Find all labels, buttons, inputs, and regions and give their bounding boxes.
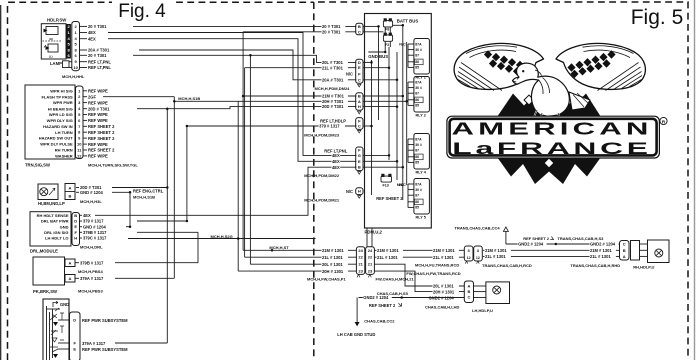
connector MCH,H,H3L bbox=[65, 184, 75, 200]
connector TRANS,CHAS,CAB,H,RHD pin strip bbox=[620, 241, 630, 261]
svg-text:LH CAB GND STUD: LH CAB GND STUD bbox=[337, 332, 375, 337]
svg-text:23: 23 bbox=[358, 269, 363, 274]
svg-text:86: 86 bbox=[415, 200, 419, 204]
svg-text:REF LT,PNL: REF LT,PNL bbox=[88, 65, 111, 70]
svg-text:87A: 87A bbox=[415, 80, 422, 84]
svg-text:RH HDLT SENSE: RH HDLT SENSE bbox=[37, 213, 69, 218]
svg-text:C: C bbox=[358, 77, 361, 82]
svg-text:379 # 1317: 379 # 1317 bbox=[319, 124, 340, 129]
svg-text:12: 12 bbox=[77, 153, 82, 158]
svg-text:E: E bbox=[73, 347, 76, 352]
HDLP,SW wire stubs and labels bbox=[80, 25, 88, 27]
trunk 20H vertical bbox=[237, 101, 239, 271]
svg-text:D: D bbox=[73, 318, 76, 323]
svg-text:REF WIPE: REF WIPE bbox=[88, 154, 108, 159]
svg-text:MCH,H,FU,TRANS,RCD: MCH,H,FU,TRANS,RCD bbox=[415, 262, 459, 267]
wire GND2 # 1204 to RHD bbox=[506, 243, 620, 245]
switch TRN,SIG,SW bbox=[25, 85, 75, 159]
svg-text:REF PWR SUBSYSTEM: REF PWR SUBSYSTEM bbox=[82, 347, 128, 352]
ground CHAS,CAB,CC2 bbox=[356, 298, 358, 323]
connector MCH,H,TURN,SIG,SW,TGL pin strip bbox=[76, 86, 84, 159]
svg-text:HAZARD SW OUT: HAZARD SW OUT bbox=[39, 136, 74, 141]
svg-text:GND: GND bbox=[60, 224, 69, 229]
logo eagle talons bbox=[533, 110, 561, 123]
connector MCH,H,PBS3 bbox=[65, 275, 75, 283]
wires 21M/21L to RHD bbox=[483, 249, 620, 251]
svg-text:30 #: 30 # bbox=[415, 86, 422, 90]
svg-text:REF WIPE: REF WIPE bbox=[88, 89, 108, 94]
Fig.4 page dashed border bbox=[8, 2, 314, 360]
svg-text:GND2 # 1204: GND2 # 1204 bbox=[518, 242, 544, 247]
connector PWR pin strip bbox=[70, 312, 81, 360]
power block internal circuit bbox=[46, 306, 48, 360]
svg-text:REF SHEET 2: REF SHEET 2 bbox=[88, 148, 115, 153]
wire 20 # T301 to PDM C bbox=[243, 31, 356, 33]
svg-text:20 # T301: 20 # T301 bbox=[322, 29, 341, 34]
svg-text:4EX: 4EX bbox=[332, 153, 340, 158]
svg-text:REF SHEET 2: REF SHEET 2 bbox=[376, 196, 403, 201]
connector MCH,H,FW,CHAS,P1 / FW,CHAS,H,MCH,21 bbox=[356, 247, 364, 275]
svg-text:22: 22 bbox=[368, 255, 373, 260]
svg-text:B: B bbox=[358, 24, 361, 29]
svg-text:WASHER: WASHER bbox=[55, 154, 73, 159]
svg-text:D: D bbox=[74, 219, 77, 224]
svg-text:21M # 1301: 21M # 1301 bbox=[433, 248, 455, 253]
svg-text:21: 21 bbox=[358, 262, 363, 267]
svg-text:MCH,H,TURN,SIG,SW,TGL: MCH,H,TURN,SIG,SW,TGL bbox=[88, 162, 138, 167]
svg-text:MCH,H,PDM,DM21: MCH,H,PDM,DM21 bbox=[304, 197, 340, 202]
svg-text:AMERICAN: AMERICAN bbox=[452, 119, 653, 139]
wire 4EX DRL B bbox=[95, 167, 356, 215]
svg-text:REF SHEET 2: REF SHEET 2 bbox=[88, 136, 115, 141]
svg-text:379B # 1317: 379B # 1317 bbox=[80, 260, 104, 265]
wire 20A # T301 pin8 bbox=[139, 50, 356, 80]
svg-text:87: 87 bbox=[415, 92, 419, 96]
svg-text:21L # 1301: 21L # 1301 bbox=[590, 254, 611, 259]
page edge line right bbox=[694, 0, 696, 360]
svg-text:FW,CHAS,H,FW,TRANS,RCD: FW,CHAS,H,FW,TRANS,RCD bbox=[406, 271, 460, 276]
wire GND # 1204 bbox=[112, 191, 130, 193]
logo registered mark bbox=[660, 117, 667, 124]
svg-text:(H): (H) bbox=[49, 37, 53, 41]
svg-text:(L): (L) bbox=[49, 55, 53, 59]
svg-text:4EX: 4EX bbox=[332, 165, 340, 170]
svg-text:85: 85 bbox=[415, 66, 419, 70]
svg-text:DRL,MODULE: DRL,MODULE bbox=[30, 249, 58, 254]
svg-text:D: D bbox=[358, 60, 361, 65]
svg-text:MCH,H,PBS4: MCH,H,PBS4 bbox=[78, 269, 103, 274]
svg-text:N/C: N/C bbox=[346, 189, 353, 194]
trunk S1B vertical bbox=[173, 97, 175, 279]
node MCH,H,S1B bbox=[173, 100, 176, 103]
wire 4EX pin1 bbox=[108, 33, 356, 156]
svg-text:A: A bbox=[467, 283, 470, 288]
svg-text:RH,HDLP,U: RH,HDLP,U bbox=[633, 264, 654, 269]
svg-text:WPR DLY SIG: WPR DLY SIG bbox=[47, 118, 73, 123]
svg-text:REF WIPE: REF WIPE bbox=[88, 112, 108, 117]
wire 4EX pin4 bbox=[108, 39, 356, 162]
svg-text:B: B bbox=[358, 94, 361, 99]
svg-text:20H # T301: 20H # T301 bbox=[322, 99, 344, 104]
svg-text:REF WIPE: REF WIPE bbox=[88, 142, 108, 147]
svg-text:379A # 1317: 379A # 1317 bbox=[82, 341, 106, 346]
svg-text:4EX: 4EX bbox=[83, 213, 91, 218]
wire 379B DRL F bbox=[137, 231, 198, 233]
svg-text:E: E bbox=[358, 159, 361, 164]
svg-text:CHAS,CAB,H,LHD: CHAS,CAB,H,LHD bbox=[425, 305, 460, 310]
svg-text:F13: F13 bbox=[383, 183, 389, 187]
wire GND vertical link bbox=[129, 192, 131, 226]
svg-text:MCH,H,DRL: MCH,H,DRL bbox=[80, 245, 103, 250]
relay feed stubs bbox=[407, 44, 409, 68]
svg-text:20D # T301: 20D # T301 bbox=[88, 106, 110, 111]
svg-text:MCH,H,S1B: MCH,H,S1B bbox=[133, 195, 155, 200]
svg-text:DRL IGN SIG: DRL IGN SIG bbox=[44, 230, 68, 235]
svg-text:10: 10 bbox=[73, 65, 78, 70]
svg-text:B: B bbox=[623, 248, 626, 253]
logo eagle left wing feather lines bbox=[458, 46, 518, 91]
svg-text:LAMP: LAMP bbox=[50, 61, 62, 66]
svg-text:PK,BRK,SW: PK,BRK,SW bbox=[33, 289, 57, 294]
svg-text:N/C: N/C bbox=[399, 183, 406, 187]
page edge line left (prev page) bbox=[0, 5, 2, 360]
logo maltese cross bottom bbox=[497, 157, 601, 184]
svg-text:WPR PWR: WPR PWR bbox=[53, 100, 73, 105]
svg-text:21: 21 bbox=[368, 262, 373, 267]
svg-text:RLY 5: RLY 5 bbox=[416, 216, 426, 220]
svg-text:RLY 4: RLY 4 bbox=[416, 171, 427, 175]
svg-text:MCH,H,PDM,DM22: MCH,H,PDM,DM22 bbox=[304, 173, 340, 178]
svg-text:HI,BM,IND,LP: HI,BM,IND,LP bbox=[38, 201, 65, 206]
HDLP,SW pin header black bbox=[66, 24, 71, 59]
svg-text:N/C: N/C bbox=[399, 42, 406, 46]
wire 21L # T301 bbox=[245, 67, 357, 69]
svg-text:GND # 1204: GND # 1204 bbox=[80, 190, 103, 195]
svg-text:C: C bbox=[358, 29, 361, 34]
node REF ENG,CTRL junction bbox=[129, 191, 132, 194]
connector MCH,H,DRL pin strip bbox=[72, 213, 80, 246]
svg-text:30 #: 30 # bbox=[415, 143, 422, 147]
svg-text:MCH,H,PDM,DM24: MCH,H,PDM,DM24 bbox=[315, 86, 351, 91]
svg-text:LH TURN: LH TURN bbox=[55, 130, 73, 135]
svg-text:B: B bbox=[74, 213, 77, 218]
connector MCH,H,PDM pin strips bbox=[356, 23, 363, 35]
svg-text:H: H bbox=[358, 104, 361, 109]
trunk 20 vertical to 20L row bbox=[249, 55, 251, 264]
fuse F13 bbox=[381, 174, 384, 177]
svg-text:24: 24 bbox=[368, 248, 373, 253]
svg-text:C: C bbox=[467, 295, 470, 300]
svg-text:85: 85 bbox=[415, 104, 419, 108]
svg-text:H: H bbox=[358, 189, 361, 194]
svg-text:20D # T301: 20D # T301 bbox=[322, 104, 344, 109]
svg-text:20 # T301: 20 # T301 bbox=[88, 53, 107, 58]
svg-text:21M # 1301: 21M # 1301 bbox=[590, 248, 612, 253]
svg-text:H: H bbox=[74, 236, 77, 241]
svg-text:20 # T301: 20 # T301 bbox=[88, 24, 107, 29]
svg-text:REF SHEET 2: REF SHEET 2 bbox=[88, 130, 115, 135]
connector MCH,H,PBS4 bbox=[65, 259, 75, 267]
svg-text:REF SHEET 2: REF SHEET 2 bbox=[88, 124, 115, 129]
svg-text:A: A bbox=[69, 261, 72, 266]
logo eagle tail bbox=[569, 92, 590, 110]
svg-text:87A: 87A bbox=[415, 137, 422, 141]
wire 379 DRL D bbox=[137, 220, 187, 222]
svg-text:87: 87 bbox=[415, 54, 419, 58]
svg-text:WPR LD SIG: WPR LD SIG bbox=[49, 112, 73, 117]
svg-text:LaFRANCE: LaFRANCE bbox=[452, 139, 651, 158]
wire GND DRL E bbox=[126, 226, 130, 228]
svg-text:WPR DLY PULSE: WPR DLY PULSE bbox=[40, 142, 73, 147]
connector CHAS,CAB,H,LHD pin strip bbox=[464, 281, 473, 303]
svg-text:TRN,SIG,SW: TRN,SIG,SW bbox=[25, 162, 50, 167]
svg-text:MCH,H,FW,CHAS,P1: MCH,H,FW,CHAS,P1 bbox=[307, 277, 346, 282]
svg-text:GND: GND bbox=[60, 302, 69, 307]
svg-text:379A # 1317: 379A # 1317 bbox=[80, 276, 104, 281]
svg-text:4EX: 4EX bbox=[332, 159, 340, 164]
svg-text:86: 86 bbox=[415, 155, 419, 159]
logo eagle neck and chest feathers bbox=[535, 70, 550, 94]
svg-text:REF PWR SUBSYSTEM: REF PWR SUBSYSTEM bbox=[82, 318, 128, 323]
logo eagle eye and beak bbox=[522, 70, 524, 72]
trunk 20D vertical long bbox=[166, 109, 168, 343]
wire 379C / MCH,H,S2G bbox=[128, 238, 316, 240]
svg-text:379 # 1317: 379 # 1317 bbox=[83, 219, 104, 224]
svg-text:MCH,H,HHL: MCH,H,HHL bbox=[62, 74, 85, 79]
node TRANS,CHAS,CAB,H,S3 bbox=[555, 243, 558, 246]
svg-text:4EX: 4EX bbox=[88, 36, 96, 41]
svg-text:RH TURN: RH TURN bbox=[55, 148, 73, 153]
svg-text:21L # 1301: 21L # 1301 bbox=[433, 255, 454, 260]
svg-text:MCH,H,H3L: MCH,H,H3L bbox=[80, 199, 102, 204]
svg-text:WPR HI SIG: WPR HI SIG bbox=[50, 88, 72, 93]
svg-text:CHAS,CAB,CC2: CHAS,CAB,CC2 bbox=[364, 319, 395, 324]
svg-text:DRL BAT PWR: DRL BAT PWR bbox=[41, 219, 69, 224]
svg-text:12: 12 bbox=[476, 256, 480, 260]
svg-text:21L # 1301: 21L # 1301 bbox=[377, 255, 398, 260]
svg-text:20L # T301: 20L # T301 bbox=[322, 60, 344, 65]
svg-text:N/C: N/C bbox=[346, 72, 353, 77]
svg-text:A: A bbox=[623, 254, 626, 259]
wire GND2 # 1204 lower bbox=[359, 297, 465, 299]
svg-text:REF SHEET 2: REF SHEET 2 bbox=[523, 236, 550, 241]
switch PK,BRK,SW bbox=[33, 257, 65, 285]
wire 20 # T301 pin2 to PDM B bbox=[133, 25, 356, 27]
logo eagle left wing checks bbox=[484, 50, 532, 78]
trunk 21L vertical bbox=[244, 68, 246, 258]
svg-text:FLASH TP PASS: FLASH TP PASS bbox=[41, 94, 73, 99]
wire 20H # T301 to PDM A bbox=[174, 100, 356, 102]
svg-text:HAZARD SW IN: HAZARD SW IN bbox=[43, 124, 73, 129]
svg-text:MCH,H,S1B: MCH,H,S1B bbox=[178, 96, 200, 101]
wire 20D to trunk bbox=[112, 187, 167, 189]
logo eagle body and head bbox=[513, 63, 570, 116]
wires into mid connector left bbox=[243, 249, 356, 251]
svg-text:379B # 1317: 379B # 1317 bbox=[83, 230, 107, 235]
svg-text:22: 22 bbox=[358, 255, 363, 260]
module DRL,MODULE bbox=[30, 212, 71, 246]
svg-text:TRANS,CHAS,CAB,CC4: TRANS,CHAS,CAB,CC4 bbox=[455, 225, 501, 230]
svg-text:21L # T301: 21L # T301 bbox=[322, 65, 344, 70]
svg-text:379C # 1317: 379C # 1317 bbox=[83, 236, 107, 241]
svg-text:G: G bbox=[358, 153, 361, 158]
Fig.4/Fig.5 shared dashed border vertical bbox=[313, 2, 315, 360]
svg-text:24: 24 bbox=[358, 248, 363, 253]
svg-text:MCH,H,PBS3: MCH,H,PBS3 bbox=[78, 288, 103, 293]
PDM pin strip chevrons bbox=[358, 84, 361, 87]
svg-text:85: 85 bbox=[415, 161, 419, 165]
svg-text:C: C bbox=[358, 124, 361, 129]
wires out of mid connector right bbox=[374, 249, 464, 251]
svg-text:HI BEAM SIG: HI BEAM SIG bbox=[48, 106, 73, 111]
svg-text:Fig. 4: Fig. 4 bbox=[118, 1, 166, 22]
svg-text:85: 85 bbox=[415, 206, 419, 210]
svg-text:MCH,H,ST: MCH,H,ST bbox=[269, 245, 289, 250]
svg-text:21L # 1301: 21L # 1301 bbox=[322, 255, 343, 260]
module PWR SUBSYSTEM block bbox=[43, 299, 69, 360]
svg-text:TRANS,CHAS,CAB,H,RCD: TRANS,CHAS,CAB,H,RCD bbox=[482, 263, 532, 268]
svg-text:GND2 # 1204: GND2 # 1204 bbox=[590, 242, 616, 247]
lamp HI,BM,IND,LP bbox=[38, 184, 58, 200]
svg-text:TRANS,CHAS,CAB,H,RHD: TRANS,CHAS,CAB,H,RHD bbox=[570, 263, 620, 268]
Fig.5 page dashed border bbox=[318, 2, 688, 360]
svg-text:23: 23 bbox=[368, 269, 373, 274]
svg-text:21M # 1301: 21M # 1301 bbox=[485, 248, 507, 253]
wire 379A to trunk bbox=[115, 342, 167, 344]
svg-text:BATT BUS: BATT BUS bbox=[397, 18, 419, 23]
svg-text:20A # T301: 20A # T301 bbox=[88, 48, 110, 53]
wire 20D # T301 to PDM H bbox=[137, 107, 356, 109]
svg-text:4EX: 4EX bbox=[88, 30, 96, 35]
connector TRANS,CHAS,CAB,H,RCD bbox=[464, 246, 473, 261]
svg-text:20L # 1301: 20L # 1301 bbox=[433, 284, 454, 289]
fuse F2 bbox=[384, 33, 387, 36]
svg-text:REF SHEET 2: REF SHEET 2 bbox=[369, 303, 396, 308]
svg-text:20H # 1301: 20H # 1301 bbox=[322, 269, 344, 274]
svg-text:E: E bbox=[358, 65, 361, 70]
svg-text:86: 86 bbox=[415, 60, 419, 64]
svg-text:FW,CHAS,H,MCH,21: FW,CHAS,H,MCH,21 bbox=[376, 277, 415, 282]
wire 2GF bbox=[103, 96, 174, 98]
svg-text:A: A bbox=[358, 99, 361, 104]
svg-text:CHAS,CAB,H,S5: CHAS,CAB,H,S5 bbox=[377, 291, 409, 296]
svg-text:C: C bbox=[623, 242, 626, 247]
svg-text:HDLP,SW: HDLP,SW bbox=[47, 17, 67, 22]
svg-text:REF WIPE: REF WIPE bbox=[88, 118, 108, 123]
PDM internal wiring bbox=[363, 25, 379, 27]
svg-text:30 #: 30 # bbox=[415, 48, 422, 52]
svg-text:REF LT,PNL: REF LT,PNL bbox=[88, 59, 111, 64]
svg-text:87: 87 bbox=[415, 194, 419, 198]
svg-text:MCH,H,S2G: MCH,H,S2G bbox=[211, 234, 233, 239]
logo diamond bottom bbox=[544, 158, 554, 168]
svg-text:20H # 1301: 20H # 1301 bbox=[433, 289, 455, 294]
svg-text:86: 86 bbox=[415, 98, 419, 102]
svg-text:87A: 87A bbox=[415, 42, 422, 46]
svg-text:12: 12 bbox=[467, 256, 471, 260]
svg-text:A: A bbox=[69, 276, 72, 281]
svg-text:87A: 87A bbox=[415, 182, 422, 186]
wire 21M # T301 to PDM B bbox=[243, 95, 356, 97]
svg-text:B: B bbox=[467, 289, 470, 294]
svg-text:B: B bbox=[69, 193, 72, 198]
svg-text:B: B bbox=[358, 165, 361, 170]
fuse F8 bbox=[384, 18, 387, 21]
svg-text:21M # 1301: 21M # 1301 bbox=[322, 248, 344, 253]
logo diamond top-right bbox=[564, 95, 574, 105]
lamp LH,HDLP,U bbox=[474, 285, 486, 287]
module PDM,U,2 bbox=[365, 14, 432, 229]
node CHAS,CAB,H,S5 bbox=[400, 296, 403, 299]
logo banner box bbox=[447, 116, 660, 158]
svg-text:PDM,U,2: PDM,U,2 bbox=[365, 229, 383, 234]
svg-text:LH,HDLP,U: LH,HDLP,U bbox=[472, 308, 493, 313]
ground GND arrow bbox=[53, 301, 58, 307]
svg-text:Fig. 5: Fig. 5 bbox=[631, 6, 684, 29]
relays RLY 1 / RLY 2 / RLY 4 / RLY 5 bbox=[414, 39, 430, 75]
logo eagle left wing bbox=[454, 43, 543, 89]
connector MCH,H,HHL pin strip bbox=[72, 22, 80, 71]
trunk 21M vertical bbox=[242, 32, 244, 251]
svg-text:21M # T301: 21M # T301 bbox=[322, 94, 345, 99]
wire 20 # T301 pin6 to PDM D bbox=[133, 55, 356, 62]
svg-text:10: 10 bbox=[77, 142, 82, 147]
svg-text:REF WIPE: REF WIPE bbox=[88, 100, 108, 105]
svg-text:21M # 1301: 21M # 1301 bbox=[377, 248, 399, 253]
svg-text:20L # 1301: 20L # 1301 bbox=[322, 262, 343, 267]
svg-text:2GF: 2GF bbox=[88, 94, 96, 99]
svg-text:LH HDLT LO: LH HDLT LO bbox=[45, 236, 68, 241]
PDM left wire labels bbox=[322, 25, 346, 30]
svg-text:21L # 1301: 21L # 1301 bbox=[485, 254, 506, 259]
logo eagle right wing bbox=[556, 43, 645, 90]
lamp RH,HDLP,U bbox=[640, 243, 648, 245]
logo diamond top-left bbox=[524, 95, 534, 105]
svg-text:20 # T301: 20 # T301 bbox=[322, 24, 341, 29]
PDM bottom links bbox=[366, 228, 368, 247]
svg-text:A: A bbox=[69, 185, 72, 190]
svg-text:MCH,H,PDM,DM23: MCH,H,PDM,DM23 bbox=[304, 133, 340, 138]
svg-text:GND # 1204: GND # 1204 bbox=[83, 224, 106, 229]
svg-text:20A # T301: 20A # T301 bbox=[322, 77, 344, 82]
svg-text:TRANS,CHAS,CAB,H,S3: TRANS,CHAS,CAB,H,S3 bbox=[557, 236, 604, 241]
logo American LaFrance maltese cross top bbox=[497, 94, 601, 118]
svg-text:87: 87 bbox=[415, 149, 419, 153]
Fig. 4 title bbox=[112, 0, 174, 11]
wire 379 # 1317 trunk bbox=[186, 126, 188, 221]
svg-text:RLY 2: RLY 2 bbox=[416, 114, 426, 118]
svg-text:E: E bbox=[74, 224, 77, 229]
svg-text:REF ENG,CTRL: REF ENG,CTRL bbox=[133, 189, 164, 194]
svg-text:30 #: 30 # bbox=[415, 188, 422, 192]
